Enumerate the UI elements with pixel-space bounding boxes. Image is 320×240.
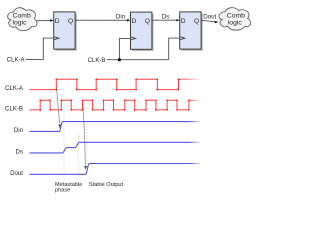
svg-text:Din: Din (14, 127, 23, 134)
svg-text:Q: Q (145, 18, 150, 25)
svg-text:Ds: Ds (16, 148, 23, 155)
svg-text:Dout: Dout (10, 170, 23, 177)
svg-text:D: D (55, 18, 60, 25)
svg-text:logic: logic (13, 20, 28, 27)
svg-text:Comb: Comb (227, 12, 245, 19)
svg-text:CLK-B: CLK-B (88, 58, 106, 64)
svg-text:CLK-A: CLK-A (5, 85, 24, 92)
svg-text:Stable Output: Stable Output (89, 182, 124, 188)
svg-text:Ds: Ds (162, 14, 170, 21)
svg-text:Q: Q (68, 18, 73, 25)
svg-text:CLK-B: CLK-B (5, 105, 23, 112)
svg-text:Q: Q (194, 18, 199, 25)
svg-text:Dout: Dout (203, 14, 216, 21)
svg-text:phase: phase (55, 187, 70, 193)
svg-text:Din: Din (116, 14, 126, 21)
svg-text:CLK-A: CLK-A (7, 58, 25, 64)
svg-text:D: D (132, 18, 137, 25)
svg-text:logic: logic (228, 20, 243, 27)
svg-text:D: D (181, 18, 186, 25)
